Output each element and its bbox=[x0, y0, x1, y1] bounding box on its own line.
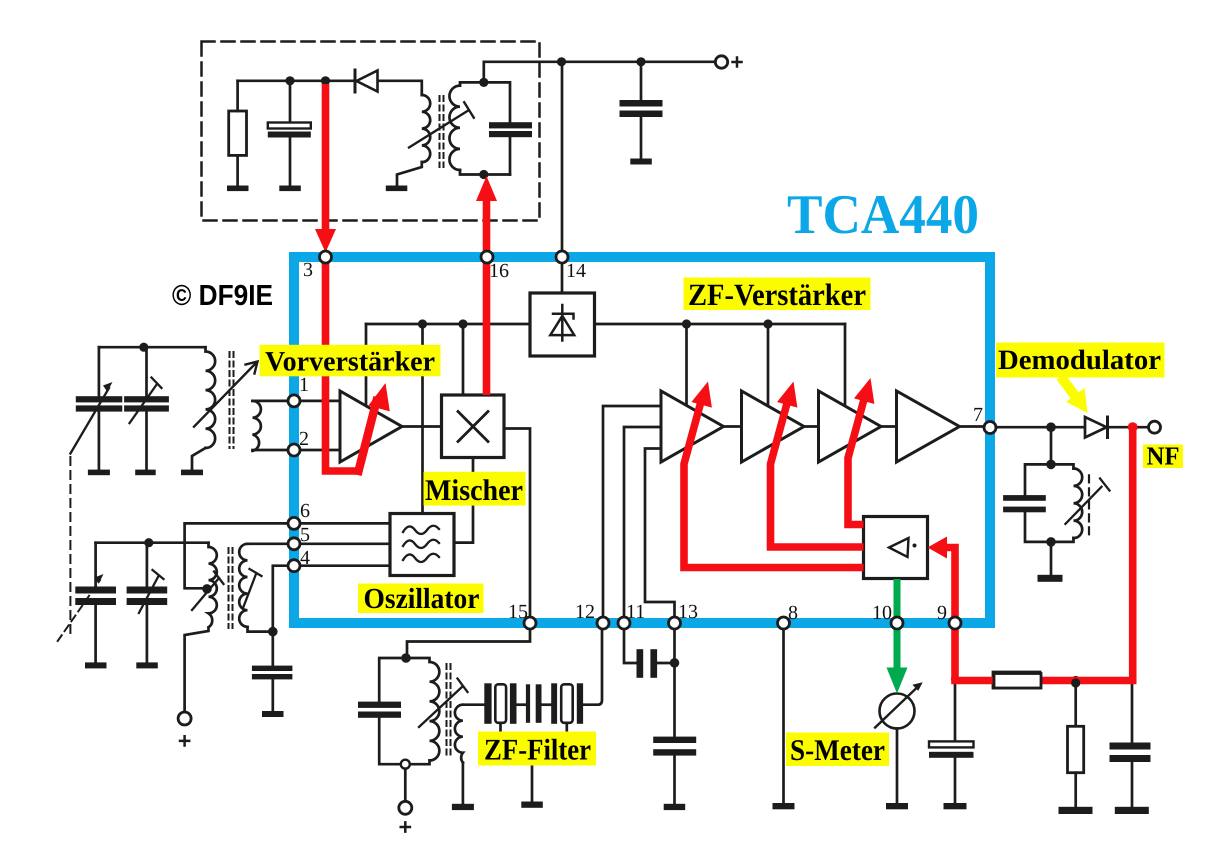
wire pin4 external bbox=[273, 566, 294, 632]
wire top net y80.8 bbox=[238, 79, 354, 82]
node J21 bbox=[951, 675, 959, 683]
inductor L1 (demod coil) bbox=[1074, 469, 1083, 539]
pin 9 bbox=[949, 617, 961, 629]
oscillator U4 box bbox=[390, 514, 454, 576]
mixer cross bbox=[458, 412, 488, 442]
C6 arrow bbox=[130, 378, 162, 424]
C5 arrow bbox=[70, 388, 109, 454]
wire tank to supply rail bbox=[484, 62, 562, 83]
node J12 bbox=[1046, 460, 1056, 470]
node J19 bbox=[670, 658, 680, 668]
terminal supply + bbox=[715, 56, 727, 68]
red signal arrow into pin3 bbox=[322, 84, 330, 231]
L1 trim arrow bbox=[1065, 479, 1109, 524]
wire pin11 to A1 bbox=[624, 427, 661, 620]
top-left tank top wire bbox=[99, 346, 206, 349]
wire A1-A2 bbox=[724, 425, 742, 428]
wire pin6 to oscillator bbox=[294, 522, 390, 525]
svg-text:© DF9IE: © DF9IE bbox=[172, 280, 273, 312]
T3 sec arrow bbox=[243, 569, 262, 608]
ZF filter input wire bbox=[463, 703, 484, 706]
wire T1 primary bottom to ground bbox=[397, 162, 422, 186]
inductor T4 primary bbox=[406, 658, 439, 764]
svg-text:12: 12 bbox=[575, 601, 595, 623]
wire pin14 feed bbox=[561, 62, 564, 252]
BLACKWIRES2 bbox=[58, 343, 1151, 832]
wire R3 to ground bbox=[1074, 773, 1077, 807]
wire A4 to pin7 bbox=[960, 425, 991, 428]
wire pin7 node down bbox=[1050, 427, 1053, 464]
junction circle small bbox=[401, 760, 410, 769]
wire rail to oscillator bbox=[421, 324, 424, 514]
transformer T3 secondary bbox=[239, 544, 247, 627]
T2 core bbox=[230, 352, 234, 448]
resistor R2 (horizontal, on AGC line) bbox=[993, 672, 1040, 688]
L1 core dashes bbox=[1088, 475, 1090, 534]
wire to + terminal bbox=[404, 769, 407, 801]
ZF filter out to pin12 bbox=[583, 626, 602, 705]
wire tank loop bottom bbox=[460, 170, 510, 175]
label S-Meter bbox=[786, 733, 889, 767]
terminal + mark bbox=[401, 822, 410, 831]
node J20 bbox=[1071, 676, 1080, 685]
pin 13 bbox=[669, 617, 681, 629]
svg-text:ZF-Filter: ZF-Filter bbox=[484, 734, 591, 767]
meter M1 (S-Meter) bbox=[880, 694, 915, 729]
wire pin13 to A1 bbox=[645, 449, 675, 621]
svg-text:Oszillator: Oszillator bbox=[364, 583, 480, 615]
ground demod tank bbox=[1038, 575, 1063, 582]
wire pin7 to demod diode bbox=[996, 426, 1085, 429]
demod tank loop bbox=[1025, 464, 1074, 495]
pin 5 bbox=[288, 538, 300, 550]
node J5 bbox=[557, 57, 566, 66]
capacitor C12 bbox=[653, 737, 696, 811]
wire pin1 to preamp bbox=[294, 400, 340, 403]
svg-text:13: 13 bbox=[678, 601, 698, 623]
C8 arrow bbox=[139, 570, 164, 613]
wire diode to coil bbox=[378, 81, 422, 95]
node J10 bbox=[763, 319, 772, 328]
diode D1 bbox=[355, 70, 378, 92]
dashed box (antenna/demo input network) bbox=[202, 42, 540, 221]
AGC amp U5 box bbox=[864, 517, 928, 579]
label ZF-Filter bbox=[478, 732, 596, 766]
transformer T2 secondary bbox=[253, 401, 261, 451]
svg-text:14: 14 bbox=[566, 260, 586, 282]
node J2 bbox=[321, 76, 330, 85]
wire pin11 to C11 bbox=[624, 626, 636, 663]
ground T4 bbox=[452, 804, 474, 810]
op-amp A1 (ZF) bbox=[661, 391, 724, 462]
red signal path mixer to pin16 arrow bbox=[483, 200, 491, 395]
svg-text:9: 9 bbox=[937, 602, 947, 624]
svg-text:7: 7 bbox=[973, 404, 983, 426]
svg-text:NF: NF bbox=[1147, 442, 1180, 471]
node J17 bbox=[268, 627, 278, 637]
svg-text:10: 10 bbox=[872, 602, 892, 624]
ground pin8 bbox=[773, 803, 795, 809]
node J14 bbox=[139, 343, 148, 352]
wire R1 top bbox=[236, 81, 239, 111]
svg-text:Demodulator: Demodulator bbox=[998, 345, 1161, 376]
node J16 (tap) bbox=[202, 584, 212, 594]
regulator zener symbol bbox=[550, 305, 574, 341]
wire mixer to oscillator bbox=[454, 458, 473, 543]
wire meter to ground bbox=[896, 729, 899, 804]
node NF (red) bbox=[1128, 422, 1138, 432]
yellow demodulator pointer arrow bbox=[1061, 377, 1088, 414]
wire tank loop top bbox=[460, 82, 510, 122]
svg-text:8: 8 bbox=[788, 602, 798, 624]
wire rail to zf amp3 bbox=[844, 324, 847, 406]
C7 arrow bbox=[58, 580, 100, 641]
wire pin5 to oscillator bbox=[294, 542, 390, 545]
wire rail to preamp bbox=[365, 324, 368, 406]
pin 11 bbox=[618, 617, 630, 629]
node J18 bbox=[401, 653, 411, 663]
svg-text:S-Meter: S-Meter bbox=[790, 734, 885, 767]
resistor R2 redraw bbox=[994, 674, 1041, 689]
capacitor C6 (trimmer) bbox=[124, 347, 169, 475]
svg-text:5: 5 bbox=[300, 524, 310, 546]
node J9 bbox=[682, 319, 691, 328]
op-amp A3 (ZF) bbox=[819, 391, 882, 462]
svg-text:ZF-Verstärker: ZF-Verstärker bbox=[688, 277, 866, 312]
red AGC path to A2 bbox=[771, 396, 864, 547]
bottom-left tank top wire bbox=[96, 541, 209, 544]
node J15 bbox=[144, 538, 153, 547]
capacitor C5 (tuning) bbox=[76, 347, 123, 475]
wire rail to zf amp1 bbox=[685, 324, 688, 405]
label Vorverstaerker bbox=[260, 345, 441, 377]
transformer T1 core bbox=[440, 96, 444, 167]
wire NF cap branch bbox=[1131, 680, 1134, 743]
terminal osc tank bbox=[399, 801, 412, 814]
wire T3 sec bottom bbox=[248, 627, 273, 632]
svg-text:TCA440: TCA440 bbox=[787, 184, 979, 246]
T2 arrow bbox=[194, 362, 258, 427]
wire pin15 to osc tank bbox=[407, 626, 530, 655]
OVERLAYS bbox=[315, 84, 1138, 681]
osc tank loop left + capacitor C10 bbox=[358, 658, 406, 764]
wire pin13 down bbox=[673, 626, 676, 737]
wire pin4 to oscillator bbox=[294, 564, 390, 567]
label NF bbox=[1143, 445, 1183, 469]
T3 trim arrow bbox=[192, 572, 224, 611]
svg-text:2: 2 bbox=[299, 428, 309, 450]
AGC amp triangle bbox=[889, 538, 909, 557]
CIRCLES bbox=[178, 56, 1160, 815]
wire preamp to mixer bbox=[402, 425, 442, 428]
gang dashed line bbox=[69, 457, 71, 638]
node J7 bbox=[418, 319, 427, 328]
wire T2 sec to pin1 bbox=[253, 400, 295, 403]
pin 6 bbox=[288, 517, 300, 529]
T3 core bbox=[229, 548, 233, 628]
ground R3 bbox=[1059, 807, 1093, 814]
red arrow into AGC amp bbox=[947, 548, 956, 620]
ground T2 bbox=[181, 470, 203, 476]
op-amp U1 (Vorverstaerker) bbox=[340, 391, 402, 462]
svg-text:11: 11 bbox=[626, 601, 645, 623]
wire pin14 to regulator bbox=[561, 257, 564, 293]
resistor R3 (vertical) bbox=[1068, 726, 1084, 772]
pin 1 bbox=[288, 395, 300, 407]
capacitor C1 (trimmer) bbox=[268, 81, 311, 191]
transformer T1 primary bbox=[422, 95, 430, 162]
wire J20 to R3 bbox=[1074, 681, 1077, 727]
mixer U3 box bbox=[442, 395, 505, 458]
node J11 bbox=[1046, 422, 1056, 432]
T2 primary bottom to ground bbox=[192, 448, 206, 470]
svg-text:3: 3 bbox=[303, 259, 313, 281]
oscillator waves bbox=[403, 526, 439, 562]
svg-text:4: 4 bbox=[300, 547, 310, 569]
terminal osc + bbox=[180, 736, 189, 745]
AGC amp dot bbox=[913, 544, 917, 548]
terminal osc supply bbox=[178, 712, 191, 725]
ground T1 bbox=[386, 186, 408, 192]
wire C11 to pin13 line bbox=[657, 662, 674, 665]
wire mixer out to pin15 bbox=[504, 429, 530, 621]
op-amp A4 (ZF) bbox=[897, 391, 960, 462]
transformer T2 primary bbox=[206, 347, 216, 448]
wire rail to zf amp2 bbox=[767, 324, 770, 406]
POST (components over overlays) bbox=[994, 674, 1080, 689]
ZF filter ground bbox=[531, 766, 534, 802]
pin 7 bbox=[984, 422, 996, 434]
pin 15 bbox=[524, 617, 536, 629]
pin 14 bbox=[556, 251, 568, 263]
red signal path pin3 to preamp bbox=[326, 262, 360, 471]
svg-text:Vorverstärker: Vorverstärker bbox=[265, 347, 435, 378]
capacitor C13 (electrolytic) bbox=[929, 741, 974, 809]
capacitor C2 bbox=[489, 122, 532, 174]
pin 3 bbox=[320, 251, 332, 263]
svg-text:Mischer: Mischer bbox=[425, 474, 523, 507]
T4 sec bottom to ground bbox=[462, 763, 465, 804]
node J8 bbox=[458, 319, 467, 328]
pin 10 bbox=[891, 617, 903, 629]
T3 primary bottom to terminal bbox=[185, 628, 209, 712]
pin 12 bbox=[597, 617, 609, 629]
wire T3 sec to pin5 bbox=[248, 542, 295, 545]
svg-text:6: 6 bbox=[300, 500, 310, 522]
transformer T1 secondary bbox=[449, 86, 460, 170]
terminal NF out bbox=[1149, 421, 1161, 433]
pin 8 bbox=[778, 617, 790, 629]
pin 16 bbox=[481, 251, 493, 263]
wire tank to ground bbox=[1050, 542, 1053, 575]
capacitor C15 bbox=[1110, 743, 1151, 815]
node J6 bbox=[636, 57, 645, 66]
wire rail to mixer bbox=[462, 324, 465, 395]
capacitor C9 bbox=[252, 632, 293, 717]
label ZF-Verstaerker bbox=[684, 278, 871, 311]
wire A2-A3 bbox=[804, 425, 819, 428]
pin 2 bbox=[288, 444, 300, 456]
wire pin6 external Z bbox=[185, 523, 294, 588]
wire R1 bottom bbox=[236, 155, 239, 185]
capacitor C4 bbox=[1003, 495, 1046, 512]
svg-text:16: 16 bbox=[489, 260, 509, 282]
node J20b bbox=[1071, 678, 1080, 687]
green meter drive arrow bbox=[887, 579, 908, 694]
regulator U2 box bbox=[530, 293, 595, 356]
meter needle bbox=[875, 689, 915, 728]
IC outline TCA440 bbox=[294, 257, 990, 623]
ground meter bbox=[886, 803, 908, 809]
plus supply bbox=[733, 58, 742, 67]
node J4 bbox=[479, 170, 488, 179]
svg-text:15: 15 bbox=[508, 601, 528, 623]
wire T2 sec to pin2 bbox=[253, 449, 295, 452]
capacitor C8 (trimmer) bbox=[127, 543, 168, 669]
wire pin2 to preamp bbox=[294, 449, 340, 452]
capacitor C11 bbox=[637, 649, 658, 678]
wire pin8 to ground bbox=[782, 626, 785, 803]
wire supply rail to terminal bbox=[562, 60, 716, 63]
resistor R1 bbox=[229, 111, 247, 155]
capacitor C3 (supply bypass) bbox=[620, 62, 663, 165]
red AGC path to A1 bbox=[684, 396, 864, 568]
ZF filter F1 bbox=[484, 683, 583, 731]
red NF to pin9 path bbox=[955, 429, 1133, 681]
node J1 bbox=[285, 76, 294, 85]
transformer T3 primary bbox=[209, 543, 217, 628]
pin 4 bbox=[288, 560, 300, 572]
wire A3-A4 bbox=[881, 425, 897, 428]
transformer T1 trim arrow bbox=[409, 102, 474, 147]
label Oszillator bbox=[358, 584, 484, 614]
node J3 bbox=[479, 78, 488, 87]
node J13 bbox=[1046, 537, 1056, 547]
label Demodulator bbox=[996, 343, 1165, 378]
ground R1 bbox=[227, 186, 249, 192]
op-amp A2 (ZF) bbox=[742, 391, 805, 462]
red AGC path to A3 bbox=[848, 392, 866, 525]
wire diode to NF terminal bbox=[1108, 426, 1149, 429]
wire pin12 to A1 bbox=[603, 406, 661, 620]
T4 core bbox=[447, 664, 451, 758]
wire pin9 cap branch bbox=[954, 680, 957, 741]
T4 trim arrow bbox=[419, 679, 468, 728]
BLACKWIRES bbox=[202, 42, 1149, 621]
capacitor C7 (tuning) bbox=[75, 543, 116, 669]
svg-text:1: 1 bbox=[299, 374, 309, 396]
regulator rail y324 bbox=[366, 323, 845, 326]
diode D2 (demodulator) bbox=[1085, 417, 1108, 438]
transformer T4 secondary bbox=[455, 705, 463, 763]
label Mischer bbox=[424, 472, 526, 506]
